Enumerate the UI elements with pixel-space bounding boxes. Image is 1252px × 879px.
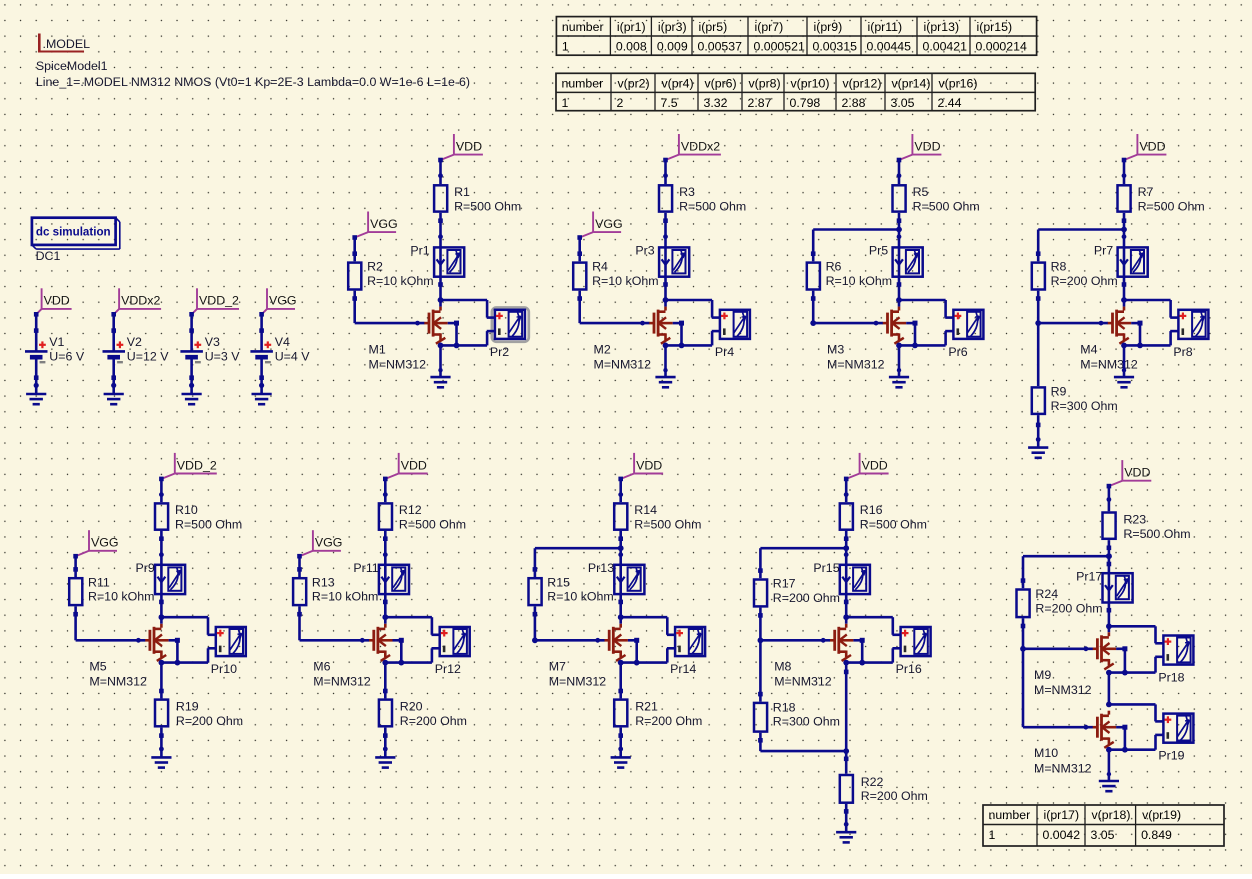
svg-text:i(pr15): i(pr15) [977, 20, 1013, 34]
svg-text:R=500 Ohm: R=500 Ohm [1138, 200, 1205, 214]
svg-text:R16: R16 [860, 503, 883, 517]
svg-text:VGG: VGG [370, 217, 398, 231]
svg-text:0.00315: 0.00315 [813, 40, 858, 54]
svg-text:R9: R9 [1051, 385, 1067, 399]
svg-text:R20: R20 [400, 700, 423, 714]
svg-text:Pr13: Pr13 [588, 561, 614, 575]
svg-text:M=NM312: M=NM312 [1034, 761, 1092, 775]
svg-text:VDD: VDD [401, 458, 427, 472]
svg-text:Pr8: Pr8 [1173, 345, 1192, 359]
svg-text:i(pr7): i(pr7) [755, 20, 784, 34]
svg-text:number: number [562, 77, 604, 91]
svg-text:R=10 kOhm: R=10 kOhm [547, 590, 613, 604]
svg-text:i(pr17): i(pr17) [1044, 808, 1080, 822]
svg-text:v(pr18): v(pr18) [1092, 808, 1131, 822]
svg-text:R=500 Ohm: R=500 Ohm [913, 200, 980, 214]
svg-text:VDD: VDD [862, 458, 888, 472]
svg-text:VDD: VDD [914, 139, 940, 153]
svg-text:number: number [562, 20, 604, 34]
svg-text:U=6 V: U=6 V [49, 350, 85, 364]
svg-text:VDD: VDD [456, 139, 482, 153]
svg-text:3.05: 3.05 [891, 96, 915, 110]
svg-text:3.32: 3.32 [704, 96, 728, 110]
svg-text:R=300 Ohm: R=300 Ohm [773, 715, 840, 729]
svg-text:R15: R15 [547, 575, 570, 589]
svg-text:i(pr3): i(pr3) [658, 20, 687, 34]
svg-text:0.00537: 0.00537 [698, 40, 743, 54]
svg-text:2: 2 [617, 96, 624, 110]
svg-text:R=10 kOhm: R=10 kOhm [592, 274, 658, 288]
svg-text:0.000214: 0.000214 [976, 40, 1027, 54]
svg-text:0.0042: 0.0042 [1043, 828, 1081, 842]
svg-text:v(pr4): v(pr4) [662, 77, 694, 91]
svg-text:R=500 Ohm: R=500 Ohm [679, 200, 746, 214]
svg-text:0.008: 0.008 [616, 40, 647, 54]
svg-text:R=500 Ohm: R=500 Ohm [634, 518, 701, 532]
svg-text:v(pr10): v(pr10) [791, 77, 830, 91]
svg-text:R7: R7 [1138, 185, 1154, 199]
svg-text:R12: R12 [399, 503, 422, 517]
svg-text:v(pr14): v(pr14) [892, 77, 931, 91]
svg-text:7.5: 7.5 [661, 96, 678, 110]
svg-text:v(pr19): v(pr19) [1142, 808, 1181, 822]
svg-text:R1: R1 [454, 185, 470, 199]
svg-text:Pr7: Pr7 [1094, 244, 1113, 258]
svg-text:i(pr1): i(pr1) [617, 20, 646, 34]
svg-text:VDD: VDD [636, 458, 662, 472]
svg-text:R=200 Ohm: R=200 Ohm [861, 789, 928, 803]
svg-text:V1: V1 [49, 335, 64, 349]
svg-text:VDDx2: VDDx2 [121, 294, 160, 308]
svg-text:i(pr13): i(pr13) [924, 20, 960, 34]
svg-text:.MODEL: .MODEL [43, 37, 91, 51]
svg-text:v(pr6): v(pr6) [705, 77, 737, 91]
svg-text:VDD: VDD [1139, 139, 1165, 153]
svg-text:R=200 Ohm: R=200 Ohm [635, 714, 702, 728]
svg-text:M=NM312: M=NM312 [594, 358, 652, 372]
svg-text:R19: R19 [176, 700, 199, 714]
svg-text:R10: R10 [175, 503, 198, 517]
svg-text:M7: M7 [549, 660, 566, 674]
svg-text:M4: M4 [1080, 342, 1097, 356]
svg-text:R22: R22 [861, 775, 884, 789]
svg-text:0.000521: 0.000521 [754, 40, 805, 54]
svg-text:R=500 Ohm: R=500 Ohm [860, 518, 927, 532]
svg-text:Pr19: Pr19 [1158, 749, 1184, 763]
svg-text:Pr10: Pr10 [211, 662, 237, 676]
svg-text:M=NM312: M=NM312 [313, 675, 371, 689]
svg-text:0.798: 0.798 [790, 96, 821, 110]
svg-text:R18: R18 [773, 700, 796, 714]
svg-text:M=NM312: M=NM312 [1080, 358, 1138, 372]
svg-text:R2: R2 [367, 260, 383, 274]
svg-text:Pr18: Pr18 [1158, 671, 1184, 685]
svg-text:R3: R3 [679, 185, 695, 199]
svg-text:M=NM312: M=NM312 [549, 675, 607, 689]
svg-text:R8: R8 [1051, 260, 1067, 274]
svg-text:Pr4: Pr4 [715, 345, 734, 359]
svg-text:v(pr8): v(pr8) [749, 77, 781, 91]
svg-text:VDD_2: VDD_2 [177, 458, 217, 472]
svg-text:V4: V4 [275, 335, 290, 349]
svg-text:M6: M6 [313, 660, 330, 674]
svg-text:M=NM312: M=NM312 [1034, 683, 1092, 697]
svg-text:Pr14: Pr14 [670, 662, 696, 676]
svg-text:2.44: 2.44 [938, 96, 962, 110]
svg-text:R=200 Ohm: R=200 Ohm [1051, 274, 1118, 288]
svg-text:VDDx2: VDDx2 [681, 139, 720, 153]
svg-text:M9: M9 [1034, 668, 1051, 682]
svg-text:R=300 Ohm: R=300 Ohm [1051, 399, 1118, 413]
svg-text:M1: M1 [369, 342, 386, 356]
svg-text:R23: R23 [1123, 512, 1146, 526]
svg-text:U=4 V: U=4 V [275, 350, 311, 364]
svg-text:VGG: VGG [269, 294, 297, 308]
svg-text:R13: R13 [312, 575, 335, 589]
svg-text:i(pr5): i(pr5) [699, 20, 728, 34]
svg-text:3.05: 3.05 [1091, 828, 1115, 842]
svg-text:Pr5: Pr5 [869, 244, 888, 258]
svg-text:VDD_2: VDD_2 [199, 294, 239, 308]
svg-text:U=3 V: U=3 V [205, 350, 241, 364]
svg-text:U=12 V: U=12 V [127, 350, 169, 364]
svg-text:0.00445: 0.00445 [867, 40, 912, 54]
svg-text:V3: V3 [205, 335, 220, 349]
svg-text:M3: M3 [827, 342, 844, 356]
svg-text:i(pr9): i(pr9) [814, 20, 843, 34]
svg-text:Pr1: Pr1 [410, 244, 429, 258]
svg-text:R4: R4 [592, 260, 608, 274]
svg-text:Pr12: Pr12 [435, 662, 461, 676]
svg-text:dc simulation: dc simulation [36, 226, 111, 239]
svg-text:VGG: VGG [315, 536, 343, 550]
svg-text:R=10 kOhm: R=10 kOhm [312, 590, 378, 604]
svg-text:VDD: VDD [1124, 466, 1150, 480]
svg-text:R=500 Ohm: R=500 Ohm [454, 200, 521, 214]
svg-text:Pr9: Pr9 [136, 561, 155, 575]
svg-text:M8: M8 [774, 660, 791, 674]
svg-text:1: 1 [562, 40, 569, 54]
svg-text:R=500 Ohm: R=500 Ohm [399, 518, 466, 532]
svg-text:0.009: 0.009 [657, 40, 688, 54]
svg-text:Pr6: Pr6 [948, 345, 967, 359]
svg-text:M2: M2 [594, 342, 611, 356]
svg-text:R=10 kOhm: R=10 kOhm [367, 274, 433, 288]
svg-text:SpiceModel1: SpiceModel1 [36, 59, 108, 73]
svg-text:M=NM312: M=NM312 [774, 675, 832, 689]
svg-text:R=10 kOhm: R=10 kOhm [826, 274, 892, 288]
svg-text:v(pr16): v(pr16) [939, 77, 978, 91]
svg-text:M10: M10 [1034, 746, 1058, 760]
svg-text:R17: R17 [773, 577, 796, 591]
svg-text:R11: R11 [88, 575, 110, 589]
svg-text:M=NM312: M=NM312 [369, 358, 427, 372]
svg-text:number: number [989, 808, 1031, 822]
svg-text:M5: M5 [89, 660, 106, 674]
svg-text:Line_1=.MODEL NM312 NMOS (Vt0=: Line_1=.MODEL NM312 NMOS (Vt0=1 Kp=2E-3 … [36, 75, 470, 89]
svg-text:1: 1 [989, 828, 996, 842]
svg-text:VDD: VDD [44, 294, 70, 308]
svg-text:0.849: 0.849 [1141, 828, 1172, 842]
svg-text:VGG: VGG [595, 217, 623, 231]
svg-text:R6: R6 [826, 260, 842, 274]
svg-text:v(pr12): v(pr12) [843, 77, 882, 91]
svg-text:R24: R24 [1035, 587, 1058, 601]
svg-text:DC1: DC1 [36, 249, 61, 263]
svg-text:i(pr11): i(pr11) [868, 20, 903, 34]
svg-text:VGG: VGG [91, 536, 119, 550]
svg-text:V2: V2 [127, 335, 142, 349]
svg-text:R=200 Ohm: R=200 Ohm [773, 591, 840, 605]
svg-text:2.87: 2.87 [748, 96, 772, 110]
svg-text:Pr3: Pr3 [635, 244, 654, 258]
svg-text:M=NM312: M=NM312 [827, 358, 885, 372]
svg-text:v(pr2): v(pr2) [618, 77, 650, 91]
svg-text:Pr11: Pr11 [353, 561, 378, 575]
svg-text:R5: R5 [913, 185, 929, 199]
svg-text:R=200 Ohm: R=200 Ohm [400, 714, 467, 728]
svg-text:1: 1 [562, 96, 569, 110]
svg-text:2.88: 2.88 [842, 96, 866, 110]
svg-text:R=200 Ohm: R=200 Ohm [176, 714, 243, 728]
svg-text:M=NM312: M=NM312 [89, 675, 147, 689]
svg-text:Pr2: Pr2 [490, 345, 509, 359]
svg-text:R=500 Ohm: R=500 Ohm [1123, 527, 1190, 541]
svg-text:R=10 kOhm: R=10 kOhm [88, 590, 154, 604]
svg-text:Pr17: Pr17 [1076, 569, 1102, 583]
svg-text:0.00421: 0.00421 [923, 40, 968, 54]
svg-text:R=200 Ohm: R=200 Ohm [1035, 601, 1102, 615]
svg-text:R=500 Ohm: R=500 Ohm [175, 518, 242, 532]
svg-text:Pr16: Pr16 [896, 662, 922, 676]
svg-text:Pr15: Pr15 [813, 561, 839, 575]
svg-text:R14: R14 [634, 503, 657, 517]
svg-text:R21: R21 [635, 700, 658, 714]
